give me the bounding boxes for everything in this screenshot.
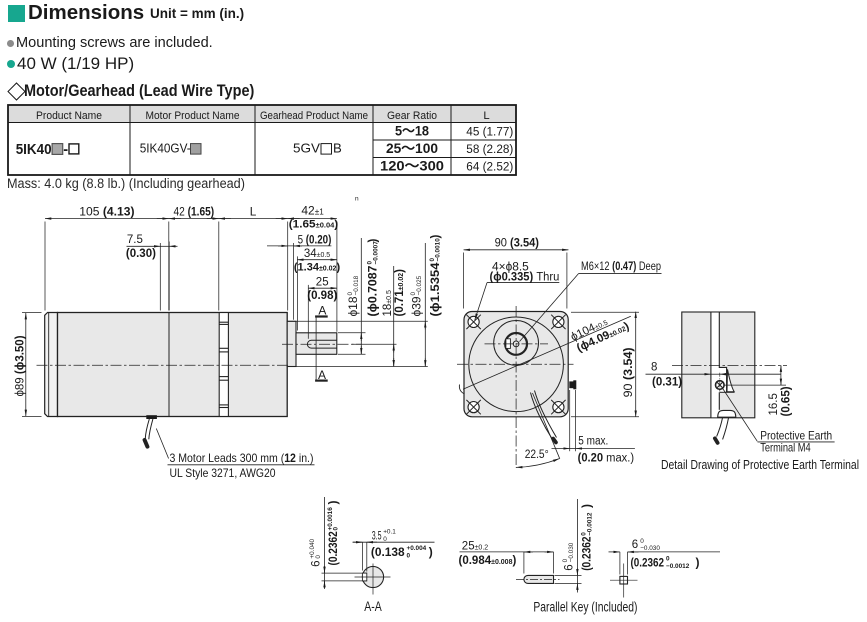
svg-text:0: 0 <box>640 538 644 545</box>
svg-text:(0.98): (0.98) <box>307 290 337 302</box>
svg-text:ϕ89 (ϕ3.50): ϕ89 (ϕ3.50) <box>15 335 27 396</box>
svg-text:UL Style 3271, AWG20: UL Style 3271, AWG20 <box>170 466 276 480</box>
svg-text:(0.20 max.): (0.20 max.) <box>578 453 635 465</box>
svg-text:): ) <box>326 501 340 505</box>
svg-text:ϕ18: ϕ18 <box>348 297 360 317</box>
svg-text:−0.025: −0.025 <box>416 275 423 295</box>
svg-text:): ) <box>580 504 594 508</box>
svg-text:(ϕ0.335) Thru: (ϕ0.335) Thru <box>490 271 560 283</box>
svg-text:8: 8 <box>651 361 657 373</box>
svg-text:6: 6 <box>632 539 638 551</box>
svg-text:0: 0 <box>333 527 340 531</box>
svg-text:(0.138: (0.138 <box>371 545 405 559</box>
svg-text:0: 0 <box>666 556 670 563</box>
svg-text:16.5: 16.5 <box>768 393 780 415</box>
svg-text:5 max.: 5 max. <box>578 436 608 448</box>
svg-text:25: 25 <box>316 276 329 288</box>
svg-text:(ϕ1.5354: (ϕ1.5354 <box>430 262 442 317</box>
svg-text:Terminal M4: Terminal M4 <box>760 441 811 455</box>
svg-text:): ) <box>696 555 700 569</box>
svg-text:n: n <box>355 196 359 203</box>
svg-text:(0.2362: (0.2362 <box>631 555 665 569</box>
svg-text:6: 6 <box>563 564 575 570</box>
svg-text:0: 0 <box>407 552 411 559</box>
svg-text:(0.2362: (0.2362 <box>326 531 340 566</box>
svg-text:): ) <box>429 545 433 559</box>
svg-text:(0.984±0.008): (0.984±0.008) <box>459 555 517 567</box>
svg-text:−0.018: −0.018 <box>353 275 360 295</box>
svg-text:−0.0012: −0.0012 <box>586 512 593 536</box>
svg-text:3 Motor Leads 300 mm (12 in.): 3 Motor Leads 300 mm (12 in.) <box>170 451 314 465</box>
svg-text:A: A <box>318 303 326 317</box>
svg-text:(0.2362: (0.2362 <box>580 536 594 571</box>
svg-text:42±1: 42±1 <box>301 204 324 218</box>
svg-text:42 (1.65): 42 (1.65) <box>173 205 214 219</box>
svg-text:34±0.5: 34±0.5 <box>304 248 330 260</box>
svg-text:25±0.2: 25±0.2 <box>462 540 488 552</box>
svg-text:L: L <box>250 205 257 219</box>
svg-text:6: 6 <box>310 560 322 566</box>
svg-text:0: 0 <box>383 536 387 543</box>
svg-text:+0.004: +0.004 <box>407 545 427 552</box>
svg-text:22.5°: 22.5° <box>525 449 549 461</box>
svg-text:): ) <box>430 235 442 239</box>
svg-text:(1.34±0.02): (1.34±0.02) <box>294 261 341 273</box>
svg-text:−0.030: −0.030 <box>640 545 660 552</box>
svg-text:A-A: A-A <box>364 599 382 614</box>
svg-text:Parallel Key (Included): Parallel Key (Included) <box>533 600 637 615</box>
svg-text:−0.0010: −0.0010 <box>435 238 442 262</box>
svg-text:90 (3.54): 90 (3.54) <box>623 347 635 397</box>
svg-text:+0.1: +0.1 <box>383 529 396 536</box>
svg-text:): ) <box>368 239 380 243</box>
svg-text:105 (4.13): 105 (4.13) <box>79 205 134 219</box>
svg-text:7.5: 7.5 <box>127 234 143 246</box>
svg-text:(ϕ0.7087: (ϕ0.7087 <box>368 266 380 317</box>
svg-text:18±0.5: 18±0.5 <box>382 290 394 316</box>
svg-text:0: 0 <box>315 555 322 559</box>
svg-text:ϕ39: ϕ39 <box>411 297 423 317</box>
svg-text:5 (0.20): 5 (0.20) <box>298 235 332 247</box>
svg-text:(0.65): (0.65) <box>780 386 792 416</box>
svg-text:3.5: 3.5 <box>372 531 382 543</box>
svg-text:−0.0007: −0.0007 <box>372 241 379 265</box>
svg-text:−0.030: −0.030 <box>568 542 575 562</box>
svg-text:(0.71±0.02): (0.71±0.02) <box>394 269 406 317</box>
svg-text:(0.30): (0.30) <box>126 248 156 260</box>
svg-text:(1.65±0.04): (1.65±0.04) <box>289 219 339 231</box>
svg-text:(0.31): (0.31) <box>652 376 682 388</box>
svg-text:−0.0012: −0.0012 <box>666 563 690 570</box>
svg-text:Detail Drawing of Protective E: Detail Drawing of Protective Earth Termi… <box>661 458 859 472</box>
svg-text:M6×12 (0.47) Deep: M6×12 (0.47) Deep <box>581 261 661 273</box>
svg-text:A: A <box>318 368 326 382</box>
svg-text:90 (3.54): 90 (3.54) <box>495 238 540 250</box>
